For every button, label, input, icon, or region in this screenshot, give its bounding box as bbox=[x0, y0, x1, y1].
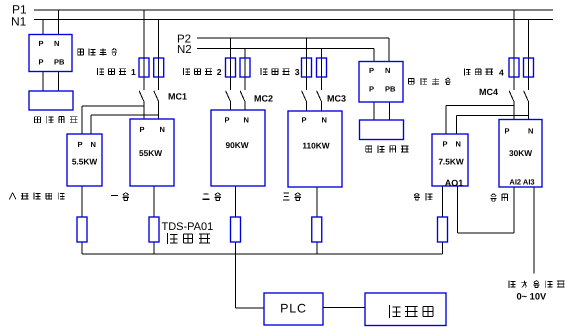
svg-text:P: P bbox=[443, 140, 448, 149]
svg-text:N: N bbox=[385, 66, 390, 75]
svg-text:P: P bbox=[78, 140, 83, 149]
svg-text:P: P bbox=[369, 85, 374, 94]
svg-text:0~ 10V: 0~ 10V bbox=[517, 292, 548, 302]
svg-text:55KW: 55KW bbox=[139, 148, 162, 158]
svg-text:7.5KW: 7.5KW bbox=[438, 157, 464, 167]
svg-text:P: P bbox=[39, 58, 44, 67]
svg-text:PB: PB bbox=[385, 85, 396, 94]
svg-text:N: N bbox=[54, 39, 59, 48]
svg-text:4: 4 bbox=[499, 68, 504, 78]
svg-text:P: P bbox=[39, 39, 44, 48]
svg-text:MC4: MC4 bbox=[479, 87, 498, 97]
svg-text:AO1: AO1 bbox=[445, 178, 464, 188]
svg-text:P: P bbox=[369, 66, 374, 75]
svg-text:2: 2 bbox=[217, 67, 222, 77]
svg-text:N: N bbox=[456, 140, 461, 149]
svg-text:P: P bbox=[225, 116, 230, 125]
svg-text:N1: N1 bbox=[11, 15, 27, 29]
svg-text:AI2 AI3: AI2 AI3 bbox=[509, 178, 534, 187]
svg-text:P: P bbox=[505, 127, 510, 136]
svg-text:N: N bbox=[528, 127, 533, 136]
svg-text:N: N bbox=[91, 140, 96, 149]
svg-text:N: N bbox=[160, 125, 165, 134]
svg-text:P: P bbox=[140, 125, 145, 134]
svg-text:30KW: 30KW bbox=[509, 148, 532, 158]
svg-text:3: 3 bbox=[295, 67, 300, 77]
svg-text:PLC: PLC bbox=[280, 302, 307, 316]
svg-text:TDS-PA01: TDS-PA01 bbox=[162, 221, 214, 233]
svg-text:1: 1 bbox=[131, 67, 136, 77]
svg-text:P: P bbox=[302, 116, 307, 125]
svg-text:N: N bbox=[322, 116, 327, 125]
svg-text:110KW: 110KW bbox=[302, 141, 329, 151]
svg-text:5.5KW: 5.5KW bbox=[72, 157, 98, 167]
svg-text:MC1: MC1 bbox=[168, 92, 187, 102]
svg-text:90KW: 90KW bbox=[225, 140, 248, 150]
svg-text:MC2: MC2 bbox=[254, 94, 273, 104]
svg-text:PB: PB bbox=[54, 58, 65, 67]
svg-text:N: N bbox=[244, 116, 249, 125]
svg-text:N2: N2 bbox=[177, 44, 192, 56]
svg-text:MC3: MC3 bbox=[327, 94, 346, 104]
